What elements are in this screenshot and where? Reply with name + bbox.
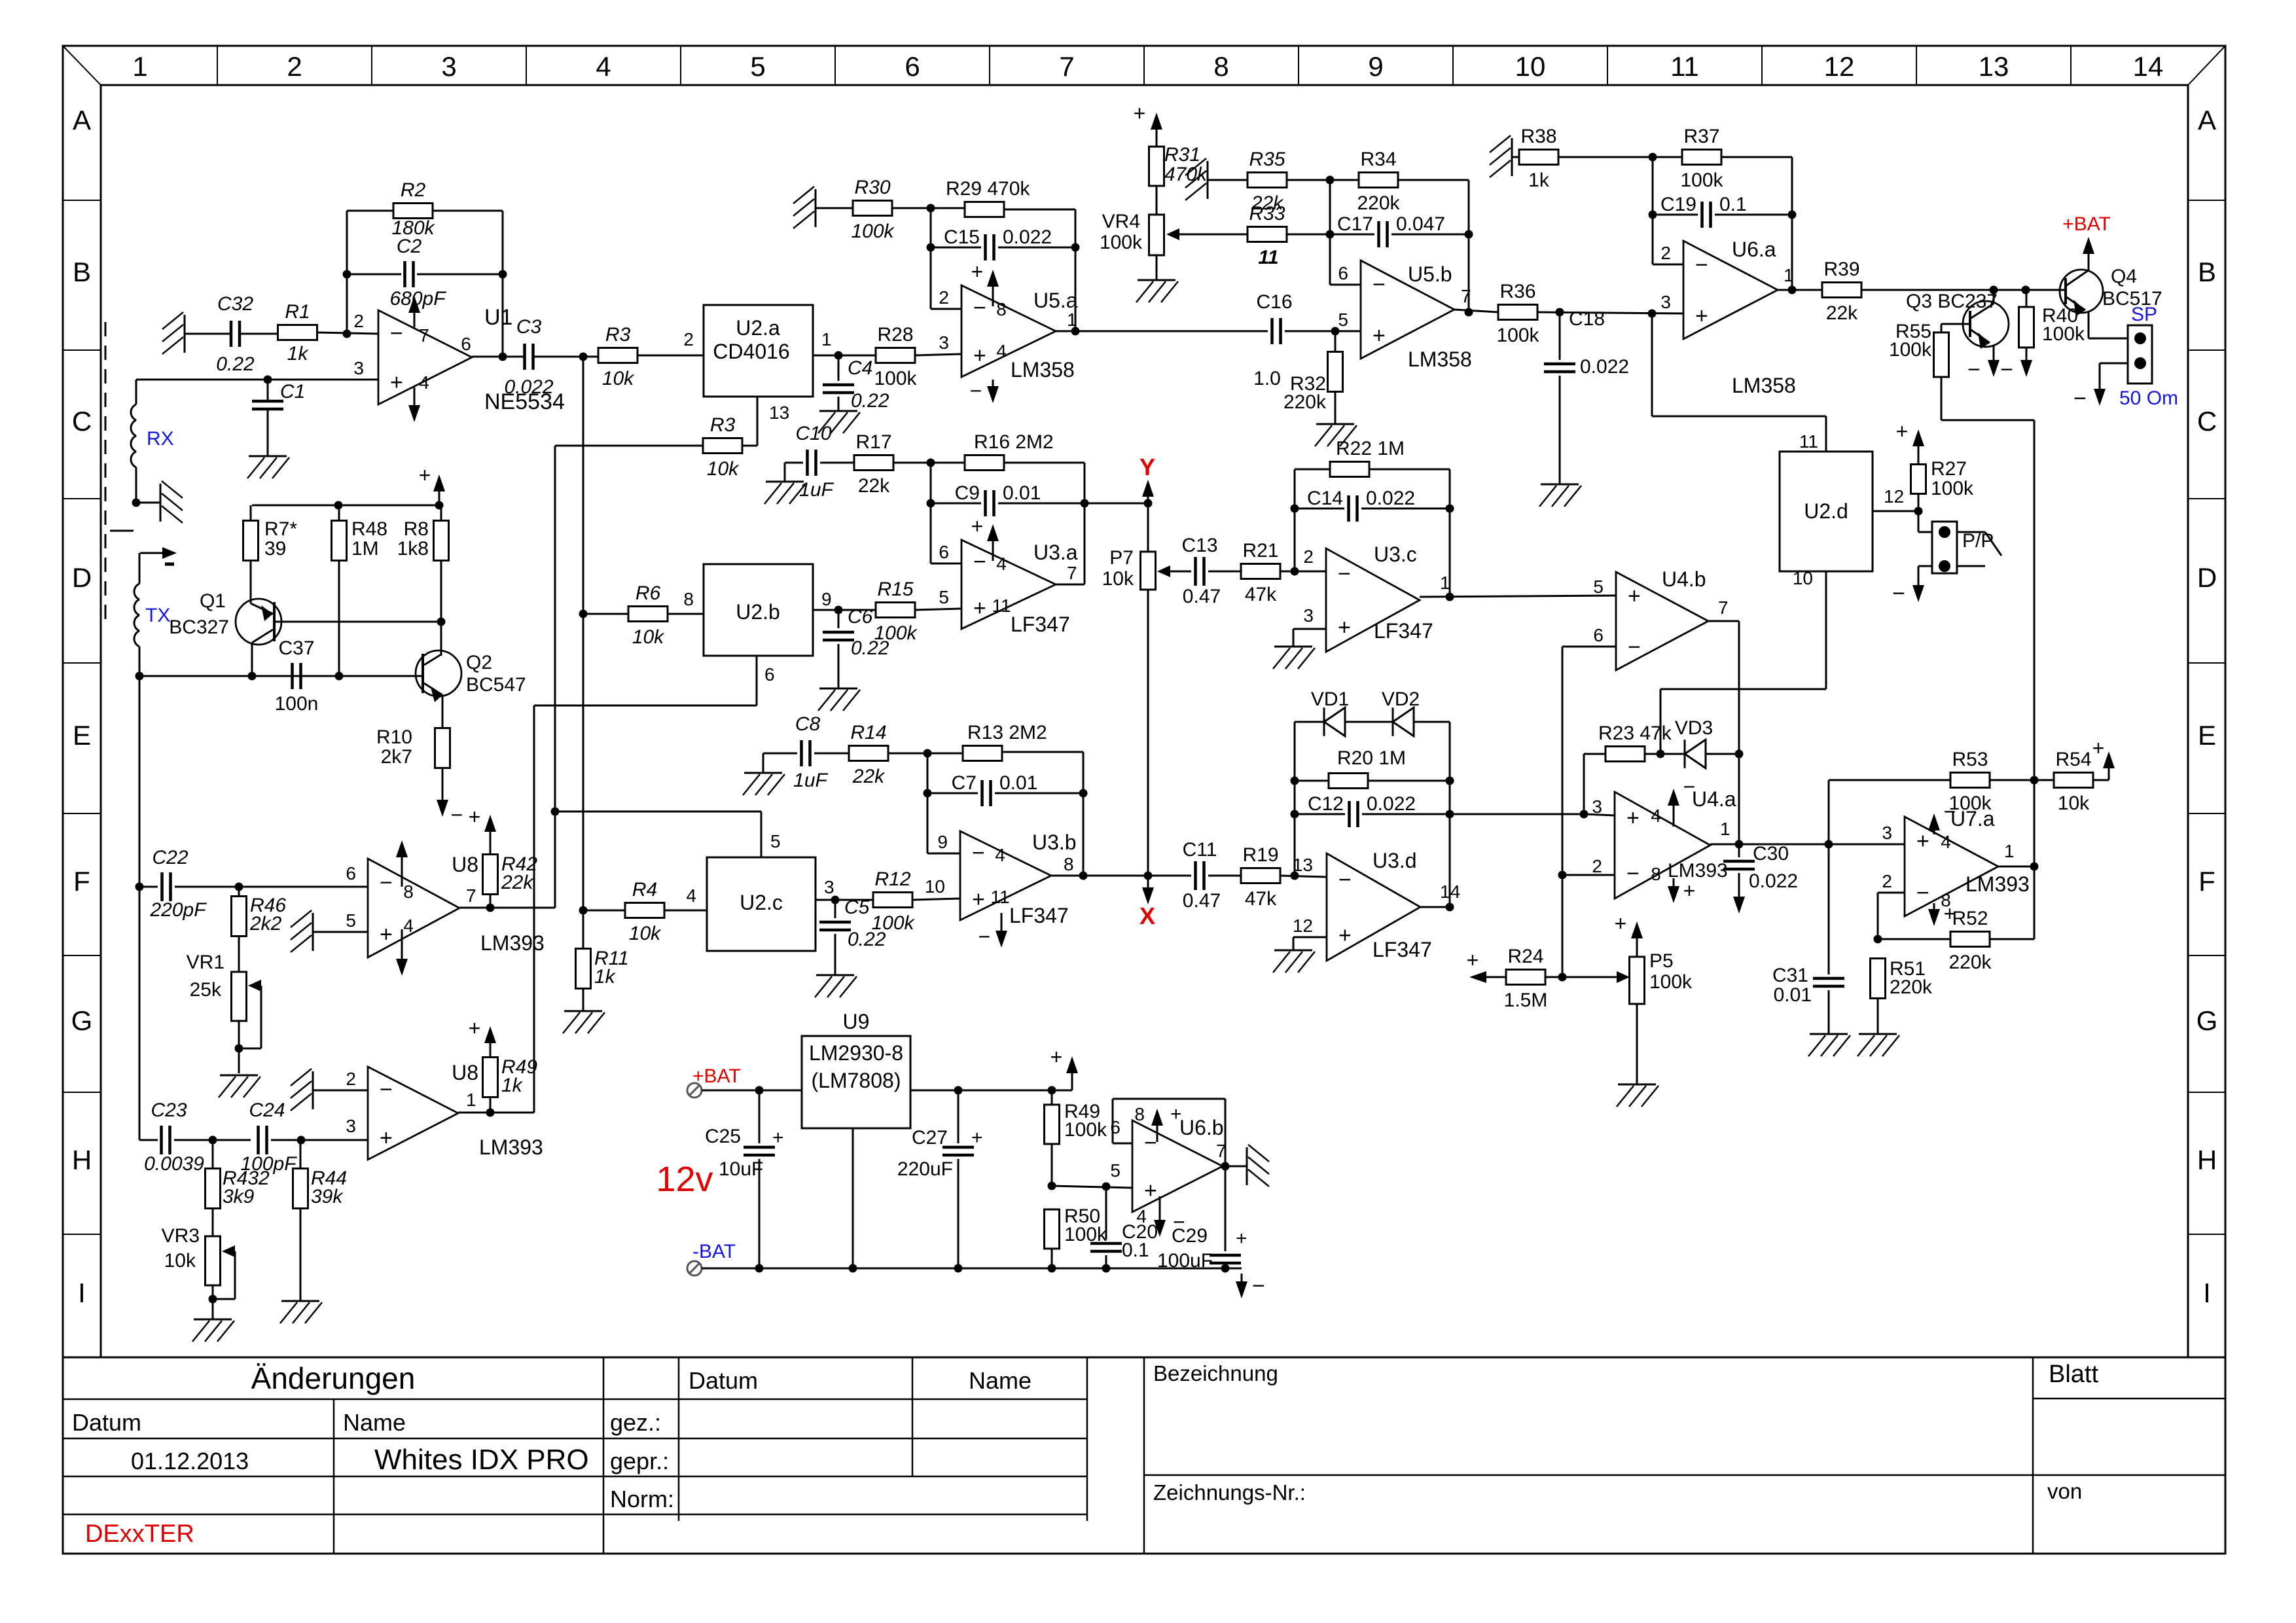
svg-text:12: 12	[1293, 916, 1313, 936]
svg-text:C37: C37	[278, 637, 314, 659]
svg-text:C24: C24	[249, 1099, 285, 1121]
svg-text:1k: 1k	[287, 343, 310, 365]
svg-text:100k: 100k	[851, 221, 895, 242]
svg-text:8: 8	[996, 299, 1007, 319]
svg-text:22k: 22k	[852, 766, 886, 787]
svg-text:-BAT: -BAT	[692, 1241, 736, 1262]
svg-text:C13: C13	[1181, 535, 1217, 556]
svg-text:22k: 22k	[1826, 302, 1858, 324]
svg-text:7: 7	[1718, 597, 1729, 618]
svg-text:E: E	[2198, 720, 2216, 751]
svg-text:100k: 100k	[2042, 323, 2085, 345]
svg-text:3: 3	[1882, 823, 1892, 843]
svg-text:4: 4	[996, 341, 1007, 361]
svg-text:R6: R6	[636, 582, 661, 604]
svg-text:C18: C18	[1569, 308, 1605, 330]
svg-text:8: 8	[1064, 854, 1074, 874]
svg-text:LM393: LM393	[1668, 860, 1728, 882]
svg-text:R4: R4	[632, 879, 657, 901]
svg-text:+: +	[1626, 806, 1640, 830]
svg-text:R36: R36	[1499, 281, 1535, 302]
svg-text:0.01: 0.01	[1774, 984, 1812, 1006]
svg-text:4: 4	[996, 554, 1007, 574]
svg-text:0.022: 0.022	[1749, 870, 1798, 892]
svg-text:+: +	[1695, 304, 1708, 329]
svg-text:3: 3	[1660, 292, 1671, 312]
svg-text:R13 2M2: R13 2M2	[967, 722, 1047, 743]
svg-text:−: −	[1338, 562, 1351, 586]
svg-text:R48: R48	[351, 518, 387, 540]
svg-text:R21: R21	[1242, 540, 1278, 562]
svg-text:C14: C14	[1307, 488, 1343, 509]
svg-text:VD2: VD2	[1382, 688, 1420, 710]
svg-text:C4: C4	[848, 357, 872, 379]
svg-text:+: +	[1467, 948, 1479, 972]
svg-text:220k: 220k	[1890, 976, 1933, 998]
svg-text:+BAT: +BAT	[2062, 213, 2111, 235]
svg-text:LM393: LM393	[479, 1135, 543, 1159]
svg-text:0.22: 0.22	[848, 929, 886, 950]
svg-text:I: I	[2203, 1277, 2211, 1308]
svg-text:P/P: P/P	[1962, 530, 1994, 552]
svg-text:10k: 10k	[632, 626, 665, 648]
svg-text:10k: 10k	[707, 458, 740, 480]
svg-text:R27: R27	[1931, 458, 1967, 480]
svg-text:U2.b: U2.b	[736, 600, 780, 624]
svg-text:12: 12	[1824, 51, 1855, 82]
svg-text:+: +	[973, 343, 986, 368]
svg-text:0.1: 0.1	[1122, 1240, 1149, 1261]
svg-text:1: 1	[2004, 841, 2015, 861]
svg-text:U4.a: U4.a	[1692, 787, 1736, 811]
svg-text:2k2: 2k2	[249, 913, 282, 935]
svg-text:50 Om: 50 Om	[2119, 387, 2178, 409]
svg-text:220k: 220k	[1357, 192, 1400, 214]
svg-text:5: 5	[1110, 1160, 1121, 1181]
svg-text:7: 7	[1461, 286, 1471, 306]
svg-text:R3: R3	[710, 414, 736, 436]
svg-text:9: 9	[821, 589, 832, 609]
svg-text:−: −	[970, 379, 982, 402]
svg-text:+: +	[971, 514, 984, 538]
svg-text:1.5M: 1.5M	[1504, 990, 1548, 1011]
svg-text:Norm:: Norm:	[610, 1486, 674, 1512]
svg-text:100k: 100k	[1948, 793, 1992, 814]
svg-text:100k: 100k	[1100, 232, 1143, 253]
svg-text:VR4: VR4	[1102, 211, 1140, 232]
svg-text:11: 11	[990, 887, 1009, 907]
svg-text:220uF: 220uF	[897, 1158, 953, 1180]
svg-text:0.47: 0.47	[1183, 890, 1221, 912]
svg-text:R22 1M: R22 1M	[1336, 438, 1405, 459]
svg-text:U6.a: U6.a	[1732, 238, 1776, 261]
svg-text:C25: C25	[705, 1126, 741, 1147]
svg-text:U1: U1	[484, 305, 512, 330]
svg-text:C1: C1	[280, 381, 305, 402]
svg-text:Name: Name	[969, 1367, 1031, 1394]
svg-text:von: von	[2047, 1479, 2082, 1503]
svg-text:100n: 100n	[275, 693, 319, 715]
svg-text:4: 4	[419, 372, 429, 393]
svg-text:C30: C30	[1753, 843, 1789, 865]
svg-text:0.022: 0.022	[504, 376, 553, 398]
svg-text:8: 8	[403, 882, 414, 902]
svg-text:Q3 BC237: Q3 BC237	[1906, 291, 1998, 312]
svg-text:6: 6	[346, 863, 356, 883]
svg-text:C: C	[2197, 406, 2217, 437]
svg-text:+: +	[2092, 736, 2105, 760]
svg-text:C2: C2	[397, 236, 422, 257]
svg-text:Q1: Q1	[200, 590, 226, 612]
svg-text:U2.a: U2.a	[736, 316, 780, 340]
svg-text:10k: 10k	[629, 923, 662, 944]
svg-text:9: 9	[1368, 51, 1383, 82]
svg-text:0.047: 0.047	[1396, 213, 1445, 235]
svg-text:R14: R14	[850, 722, 886, 743]
svg-text:BC327: BC327	[169, 616, 229, 638]
svg-text:100k: 100k	[1496, 325, 1539, 346]
svg-text:3k9: 3k9	[223, 1186, 255, 1207]
svg-text:100k: 100k	[1889, 339, 1932, 361]
svg-text:100k: 100k	[1680, 169, 1723, 191]
svg-text:A: A	[73, 105, 91, 135]
svg-text:5: 5	[770, 831, 781, 851]
svg-text:680pF: 680pF	[389, 288, 446, 310]
svg-text:+: +	[390, 370, 403, 395]
svg-text:−: −	[1892, 581, 1905, 606]
svg-text:C3: C3	[516, 316, 542, 338]
svg-text:0.022: 0.022	[1366, 488, 1415, 509]
svg-text:R24: R24	[1507, 946, 1543, 967]
svg-text:B: B	[2198, 257, 2216, 287]
svg-text:1uF: 1uF	[799, 479, 834, 501]
svg-text:1: 1	[132, 51, 147, 82]
svg-text:R3: R3	[605, 324, 631, 346]
svg-text:6: 6	[764, 664, 775, 685]
svg-text:LF347: LF347	[1011, 613, 1070, 636]
svg-text:2: 2	[287, 51, 302, 82]
svg-text:R2: R2	[401, 179, 426, 201]
svg-text:+: +	[971, 1127, 983, 1149]
svg-text:8: 8	[1213, 51, 1229, 82]
svg-text:0.022: 0.022	[1580, 356, 1629, 378]
svg-text:47k: 47k	[1245, 584, 1277, 605]
svg-text:Q2: Q2	[466, 652, 492, 673]
svg-text:(LM7808): (LM7808)	[812, 1069, 901, 1092]
svg-text:R30: R30	[854, 177, 890, 198]
svg-text:−: −	[1252, 1274, 1265, 1298]
svg-text:−: −	[1628, 635, 1641, 660]
svg-text:3: 3	[1592, 796, 1602, 817]
svg-text:R28: R28	[877, 324, 913, 346]
svg-text:gez.:: gez.:	[610, 1409, 661, 1436]
svg-text:−: −	[380, 1077, 393, 1102]
svg-text:CD4016: CD4016	[713, 340, 789, 363]
svg-text:gepr.:: gepr.:	[610, 1448, 669, 1474]
svg-text:D: D	[72, 562, 92, 593]
svg-text:−: −	[972, 841, 985, 866]
svg-text:R54: R54	[2055, 749, 2091, 770]
svg-text:R1: R1	[285, 301, 310, 323]
svg-text:U2.d: U2.d	[1804, 499, 1848, 523]
svg-text:Zeichnungs-Nr.:: Zeichnungs-Nr.:	[1153, 1480, 1306, 1505]
svg-text:U4.b: U4.b	[1662, 567, 1706, 591]
svg-text:−: −	[973, 296, 986, 321]
svg-text:13: 13	[1979, 51, 2009, 82]
svg-text:25k: 25k	[190, 979, 222, 1001]
svg-text:4: 4	[686, 885, 696, 906]
svg-text:1: 1	[1067, 310, 1077, 330]
svg-text:100k: 100k	[1931, 478, 1974, 499]
svg-text:1: 1	[466, 1090, 476, 1110]
svg-text:−: −	[380, 870, 393, 895]
svg-text:C16: C16	[1256, 291, 1292, 313]
svg-text:01.12.2013: 01.12.2013	[131, 1448, 249, 1474]
svg-text:R34: R34	[1360, 149, 1396, 170]
svg-text:6: 6	[905, 51, 920, 82]
svg-text:R53: R53	[1952, 749, 1988, 770]
svg-text:Y: Y	[1139, 454, 1155, 480]
svg-text:−: −	[2000, 357, 2013, 382]
svg-text:10k: 10k	[164, 1250, 196, 1272]
svg-text:8: 8	[1651, 864, 1661, 884]
svg-text:2: 2	[683, 329, 694, 349]
svg-text:C8: C8	[795, 713, 821, 735]
svg-text:U3.c: U3.c	[1374, 543, 1417, 566]
svg-text:12v: 12v	[656, 1160, 713, 1199]
svg-text:−: −	[451, 803, 463, 827]
svg-text:4: 4	[403, 916, 414, 936]
svg-text:+: +	[1338, 923, 1352, 948]
svg-text:11: 11	[1799, 431, 1818, 452]
svg-text:6: 6	[1110, 1117, 1121, 1137]
svg-text:+: +	[469, 1016, 481, 1040]
svg-text:DExxTER: DExxTER	[85, 1520, 194, 1548]
svg-text:C10: C10	[795, 423, 831, 444]
svg-text:+: +	[380, 922, 393, 947]
svg-text:2: 2	[1592, 856, 1602, 876]
svg-text:4: 4	[596, 51, 611, 82]
svg-text:+: +	[1896, 419, 1909, 443]
svg-text:11: 11	[1670, 51, 1699, 82]
svg-text:−: −	[1338, 867, 1352, 892]
svg-text:P7: P7	[1109, 547, 1134, 569]
svg-text:11: 11	[1258, 247, 1278, 268]
svg-text:−: −	[1683, 775, 1696, 798]
svg-text:39: 39	[264, 538, 286, 560]
svg-text:0.0039: 0.0039	[144, 1153, 204, 1175]
svg-text:−: −	[2073, 386, 2087, 411]
svg-text:+: +	[1615, 912, 1627, 935]
svg-text:2: 2	[1303, 546, 1314, 567]
svg-text:LM358: LM358	[1408, 348, 1472, 371]
svg-text:−: −	[1695, 253, 1708, 277]
svg-text:Name: Name	[343, 1409, 406, 1436]
svg-text:LF347: LF347	[1372, 938, 1432, 961]
svg-text:−: −	[1967, 357, 1981, 382]
svg-text:0.1: 0.1	[1719, 194, 1747, 215]
svg-text:A: A	[2198, 105, 2216, 135]
svg-text:C29: C29	[1172, 1225, 1208, 1247]
svg-text:0.47: 0.47	[1183, 586, 1221, 607]
svg-text:C27: C27	[912, 1127, 948, 1149]
svg-text:1k: 1k	[501, 1075, 524, 1096]
svg-text:7: 7	[1059, 51, 1074, 82]
svg-text:+: +	[1372, 323, 1386, 348]
svg-text:100k: 100k	[1064, 1119, 1107, 1141]
svg-text:2: 2	[346, 1069, 356, 1089]
svg-text:+: +	[1916, 829, 1929, 853]
svg-text:4: 4	[1651, 806, 1661, 826]
svg-text:SP: SP	[2131, 304, 2157, 325]
svg-text:U5.b: U5.b	[1408, 262, 1452, 286]
svg-text:+: +	[1683, 879, 1696, 902]
svg-text:1uF: 1uF	[793, 770, 828, 791]
svg-text:5: 5	[1338, 310, 1348, 330]
svg-text:LM2930-8: LM2930-8	[809, 1041, 903, 1065]
svg-text:4: 4	[995, 845, 1005, 865]
svg-text:11: 11	[992, 596, 1011, 616]
svg-text:+BAT: +BAT	[692, 1065, 741, 1087]
svg-text:R33: R33	[1249, 203, 1285, 224]
svg-text:3: 3	[824, 877, 834, 897]
svg-text:1.0: 1.0	[1253, 368, 1281, 389]
svg-text:C5: C5	[844, 897, 870, 918]
svg-text:0.22: 0.22	[851, 390, 889, 412]
svg-text:C7: C7	[952, 772, 977, 794]
svg-text:U9: U9	[843, 1010, 870, 1033]
svg-text:C6: C6	[848, 606, 873, 628]
svg-text:+: +	[1144, 1178, 1157, 1203]
svg-text:P5: P5	[1649, 950, 1674, 972]
svg-text:+: +	[1338, 615, 1351, 640]
svg-text:C: C	[72, 406, 92, 437]
svg-text:VD1: VD1	[1311, 688, 1349, 710]
svg-text:12: 12	[1884, 486, 1904, 507]
svg-text:7: 7	[466, 885, 476, 906]
svg-text:10k: 10k	[2058, 793, 2090, 814]
svg-text:I: I	[78, 1277, 86, 1308]
svg-text:1k: 1k	[594, 966, 617, 988]
svg-text:5: 5	[939, 587, 949, 607]
svg-text:+: +	[772, 1127, 784, 1149]
svg-text:−: −	[1916, 881, 1929, 906]
svg-text:G: G	[71, 1005, 93, 1036]
svg-text:U8: U8	[452, 1061, 478, 1084]
svg-text:1k: 1k	[1528, 169, 1550, 191]
svg-text:TX: TX	[145, 605, 170, 626]
svg-text:VR1: VR1	[187, 952, 224, 973]
svg-text:+: +	[1050, 1045, 1063, 1069]
svg-text:LM358: LM358	[1011, 358, 1075, 382]
svg-text:10uF: 10uF	[719, 1158, 763, 1180]
svg-text:C19: C19	[1660, 194, 1696, 215]
svg-text:H: H	[2197, 1145, 2217, 1175]
svg-text:−: −	[1626, 861, 1640, 886]
svg-text:R37: R37	[1683, 126, 1719, 147]
svg-text:Datum: Datum	[689, 1367, 758, 1394]
svg-text:R29 470k: R29 470k	[946, 178, 1030, 200]
svg-text:BC547: BC547	[466, 674, 526, 696]
svg-text:C9: C9	[955, 482, 980, 504]
svg-text:Whites IDX PRO: Whites IDX PRO	[374, 1444, 589, 1476]
svg-text:R10: R10	[376, 726, 412, 748]
svg-text:C15: C15	[944, 226, 980, 248]
svg-text:R35: R35	[1249, 149, 1285, 170]
svg-text:100k: 100k	[874, 368, 917, 389]
svg-text:3: 3	[441, 51, 456, 82]
svg-text:47k: 47k	[1245, 888, 1277, 910]
svg-text:6: 6	[1338, 263, 1348, 283]
svg-text:Datum: Datum	[72, 1409, 141, 1436]
svg-text:VD3: VD3	[1675, 717, 1713, 739]
svg-text:C23: C23	[151, 1099, 187, 1121]
svg-text:220k: 220k	[1948, 952, 1992, 973]
svg-text:U3.d: U3.d	[1372, 849, 1417, 872]
svg-text:2: 2	[1882, 871, 1892, 891]
svg-text:R12: R12	[874, 868, 910, 890]
svg-text:E: E	[73, 720, 91, 751]
svg-text:Q4: Q4	[2111, 266, 2137, 287]
svg-text:B: B	[73, 257, 91, 287]
svg-text:6: 6	[939, 542, 949, 562]
svg-text:0.01: 0.01	[999, 772, 1037, 794]
svg-text:R17: R17	[855, 431, 891, 453]
svg-text:C22: C22	[152, 847, 188, 868]
svg-text:1M: 1M	[351, 538, 379, 560]
svg-text:2k7: 2k7	[381, 746, 412, 768]
svg-text:8: 8	[683, 589, 694, 609]
svg-text:22k: 22k	[858, 475, 890, 497]
svg-text:R39: R39	[1823, 259, 1859, 280]
svg-text:R31: R31	[1164, 144, 1200, 166]
svg-text:7: 7	[1067, 563, 1077, 583]
svg-text:R38: R38	[1520, 126, 1556, 147]
svg-text:5: 5	[750, 51, 765, 82]
svg-text:R15: R15	[877, 579, 913, 600]
svg-text:R52: R52	[1952, 908, 1988, 929]
svg-text:1: 1	[821, 329, 832, 349]
svg-text:−: −	[978, 925, 991, 948]
svg-text:+: +	[1628, 584, 1641, 609]
svg-text:0.22: 0.22	[216, 353, 255, 375]
svg-text:6: 6	[461, 334, 471, 354]
svg-text:C31: C31	[1772, 965, 1808, 986]
svg-text:R8: R8	[404, 518, 429, 540]
svg-text:10k: 10k	[1102, 568, 1134, 590]
svg-text:U2.c: U2.c	[740, 891, 783, 914]
svg-text:0.022: 0.022	[1003, 226, 1052, 248]
svg-text:14: 14	[2133, 51, 2164, 82]
svg-text:10: 10	[925, 876, 945, 897]
svg-text:220k: 220k	[1283, 391, 1327, 413]
svg-text:5: 5	[346, 910, 356, 931]
svg-text:LM358: LM358	[1732, 374, 1796, 397]
svg-text:0.22: 0.22	[851, 637, 889, 659]
svg-text:U8: U8	[452, 853, 478, 876]
svg-text:C32: C32	[217, 293, 253, 315]
svg-text:−: −	[973, 550, 986, 575]
svg-text:R20 1M: R20 1M	[1337, 747, 1406, 769]
svg-text:3: 3	[1303, 605, 1314, 626]
svg-text:X: X	[1139, 902, 1155, 929]
svg-text:H: H	[72, 1145, 92, 1175]
svg-text:VR3: VR3	[162, 1225, 200, 1247]
svg-text:10k: 10k	[602, 368, 635, 389]
svg-text:R19: R19	[1242, 844, 1278, 866]
svg-text:+: +	[1134, 101, 1146, 125]
svg-text:1: 1	[1440, 573, 1450, 593]
